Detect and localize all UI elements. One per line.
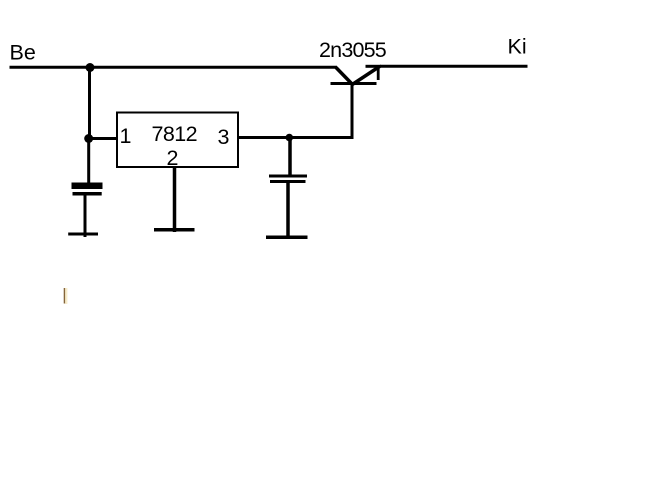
- transistor Q1 emitter arrow barb horizontal: [366, 65, 382, 68]
- transistor Q1 collector diagonal: [336, 68, 353, 86]
- node junction input/C1: [86, 63, 95, 72]
- transistor Q1 emitter arrow barb vertical: [377, 66, 380, 81]
- wire output to Ki: [380, 65, 528, 68]
- regulator U1 7812 body: [117, 113, 238, 168]
- wire input top rail: [10, 66, 338, 69]
- svg-text:Ki: Ki: [508, 35, 527, 59]
- capacitor C1 bottom plate: [73, 192, 102, 196]
- capacitor C1 top plate: [72, 183, 103, 190]
- capacitor C2 top lead: [288, 138, 292, 176]
- wire base lead down to pin3 rail: [351, 84, 354, 138]
- wire junction down to pin1 node: [88, 67, 91, 139]
- ground under C2: [266, 236, 308, 240]
- stray tan mark: [64, 288, 66, 304]
- capacitor C1 bottom lead: [84, 196, 87, 238]
- capacitor C2 bottom lead: [286, 183, 290, 238]
- node junction pin3/C2: [286, 134, 294, 142]
- capacitor C2 top plate: [269, 175, 307, 178]
- svg-text:2: 2: [167, 146, 179, 170]
- capacitor C1 top lead: [87, 140, 90, 183]
- wire node to pin 1 of U1: [89, 137, 117, 140]
- svg-text:7812: 7812: [152, 122, 197, 146]
- ground under pin 2: [154, 228, 195, 232]
- wire pin 3 output: [237, 136, 354, 139]
- wire pin 2 lead down: [173, 168, 177, 233]
- svg-text:1: 1: [120, 124, 132, 148]
- svg-text:Be: Be: [10, 41, 36, 65]
- node junction pin1/C1: [84, 134, 93, 143]
- transistor Q1 base bar: [331, 82, 377, 85]
- svg-text:3: 3: [218, 125, 230, 149]
- transistor Q1 emitter diagonal: [352, 67, 380, 86]
- ground under C1: [68, 233, 98, 236]
- capacitor C2 bottom plate: [270, 180, 306, 183]
- svg-text:2n3055: 2n3055: [319, 38, 387, 62]
- stray cream mark: [65, 288, 67, 304]
